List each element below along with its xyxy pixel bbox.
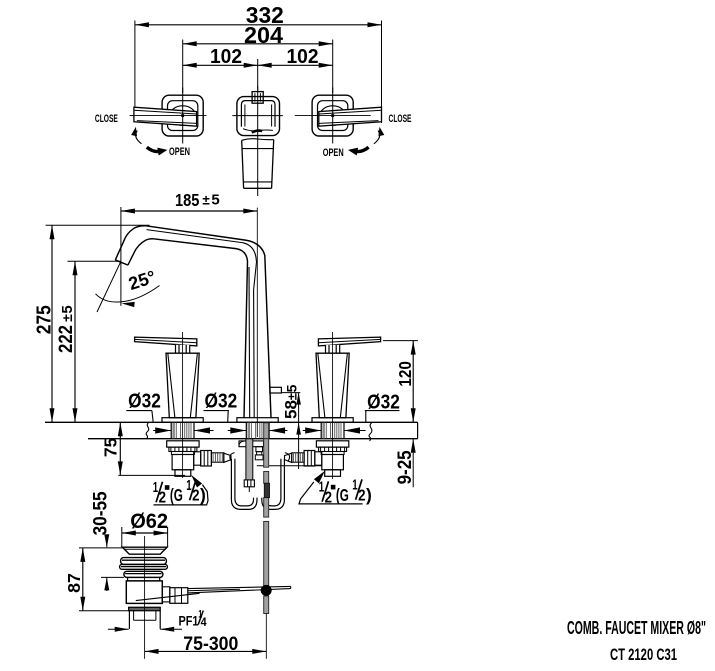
svg-text:1: 1 [352,476,357,493]
svg-text:102: 102 [287,45,319,68]
svg-text:CLOSE: CLOSE [389,113,412,125]
dim 275 [34,225,150,422]
dim 9-25 [395,439,416,488]
diameter arrows left mount [153,427,213,433]
svg-text:4: 4 [201,615,207,629]
diameter arrows right mount [303,427,366,433]
drain pop-up waste body [120,536,291,659]
svg-text:): ) [366,485,372,505]
svg-text:204: 204 [244,22,283,48]
right valve body [285,441,349,477]
svg-text:9-25: 9-25 [395,450,416,484]
svg-text:120: 120 [395,361,415,387]
label diameter 32 left [126,391,161,423]
label diameter 32 center [204,391,238,423]
svg-text:75-300: 75-300 [183,634,238,655]
svg-text:30-55: 30-55 [89,491,111,535]
svg-text:185: 185 [175,190,200,210]
left handle top view [130,88,207,144]
svg-text:2: 2 [192,488,199,505]
svg-text:2: 2 [159,490,166,507]
pop-up rod [261,423,272,659]
svg-text:COMB. FAUCET MIXER Ø8": COMB. FAUCET MIXER Ø8" [567,618,706,638]
svg-text:75: 75 [101,437,121,457]
svg-text:5: 5 [283,384,299,392]
dim 102 left top [183,45,258,91]
label diameter 32 right [365,391,400,422]
right shank in deck [321,423,344,439]
right handle top view [295,88,382,144]
dim 332 top [135,2,382,123]
right handle close/open arrows [323,113,412,159]
svg-text:2: 2 [325,489,332,506]
svg-text:): ) [200,485,206,505]
svg-text:PF1: PF1 [179,613,199,628]
diameter arrows center mount [228,427,288,433]
center shank in deck [246,423,269,439]
svg-text:Ø62: Ø62 [130,509,168,533]
dim 30-55 [89,491,124,591]
center supply tubes [239,439,322,492]
dim 25 degrees [96,261,160,312]
svg-text:5: 5 [59,305,76,313]
svg-text:(G: (G [170,485,183,505]
svg-text:±: ± [284,393,299,400]
counter deck [45,422,418,441]
left shank in deck [171,423,194,439]
svg-text:±: ± [202,193,210,208]
dim 120 [383,341,418,423]
right supply hose [262,453,290,510]
svg-text:1: 1 [319,478,324,495]
right handle front view [312,332,381,479]
svg-text:58: 58 [281,400,300,419]
svg-text:2: 2 [358,487,365,504]
dim PF1-1/4 [108,609,207,632]
label 1/2 G right [299,471,372,506]
svg-text:1: 1 [153,479,158,496]
svg-text:1: 1 [186,477,191,494]
dim diameter 62 [122,509,168,547]
title text [567,618,706,664]
svg-text:CT 2120 C31: CT 2120 C31 [610,646,677,664]
dim 87 [64,548,129,611]
spout base plate [237,418,278,423]
spout top view [232,86,283,196]
left supply hose [230,453,257,510]
svg-text:OPEN: OPEN [323,147,344,159]
svg-text:275: 275 [34,305,56,334]
left valve body [167,441,231,477]
svg-text:Ø32: Ø32 [205,391,238,413]
left handle close/open arrows [95,113,190,158]
pop-up knob [270,387,282,393]
svg-text:87: 87 [64,573,84,593]
svg-text:222: 222 [56,325,77,353]
dim 75 [101,422,185,475]
spout front view [115,208,271,437]
left handle front view [135,332,204,478]
label 1/2 G left [153,475,208,507]
dim 204 top [183,22,333,93]
svg-text:102: 102 [210,45,242,68]
svg-text:Ø32: Ø32 [367,391,400,413]
dim 58+-5 [281,384,301,469]
dim 185+-5 [121,190,257,306]
dim 222+-5 [56,261,121,422]
svg-text:OPEN: OPEN [169,146,190,158]
dim 102 right top [258,45,333,68]
svg-text:5: 5 [211,192,219,209]
svg-text:CLOSE: CLOSE [95,113,118,125]
svg-text:±: ± [59,314,75,322]
svg-text:(G: (G [336,485,349,505]
dim 75-300 [145,634,267,655]
svg-text:Ø32: Ø32 [128,391,161,413]
